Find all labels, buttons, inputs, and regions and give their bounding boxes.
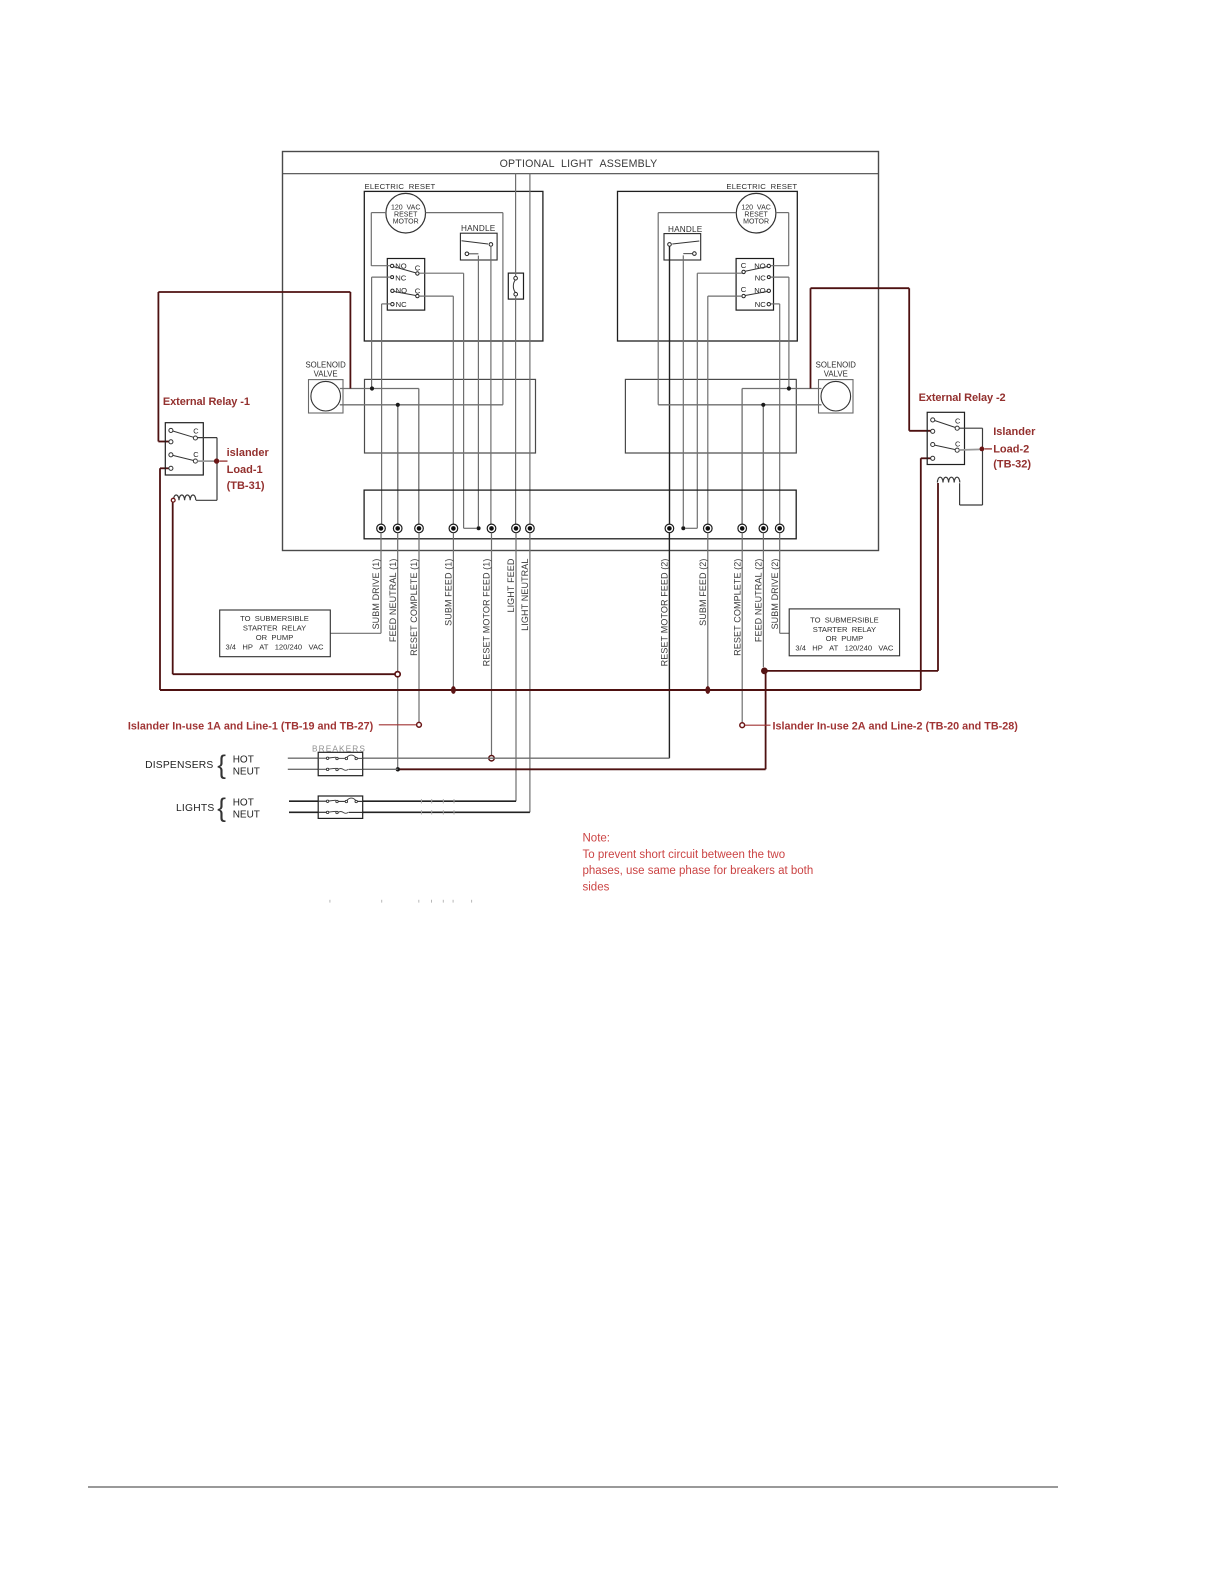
junction dispensers-neutral dot	[396, 767, 400, 771]
terminal strip box TB	[364, 490, 796, 539]
wire relay-1 C1 to load node	[196, 438, 217, 501]
wire handle S1 right pin down to RESET MOTOR FEED (1) terminal	[490, 246, 492, 524]
wire relay-1 feed vertical from valve node	[349, 292, 351, 389]
wire NC1 down to valve node (module 2)	[788, 277, 790, 388]
wire valve node to RESET COMPLETE (1) drop	[372, 388, 419, 390]
light feed switch S3	[508, 273, 523, 299]
wire feed-neutral-2 to relay-2 coil	[937, 483, 939, 671]
junction light-circuit node B at strip	[681, 526, 685, 530]
solenoid valve V1	[305, 360, 346, 413]
terminal RESET COMPLETE (2)	[738, 524, 747, 533]
wire motor M2 left lead horizontal	[658, 212, 736, 214]
svg-text:FEED NEUTRAL (2): FEED NEUTRAL (2)	[754, 559, 764, 643]
svg-text:C: C	[193, 427, 199, 436]
wire NC2 contact lead (module 2)	[771, 303, 780, 305]
svg-text:TO SUBMERSIBLE: TO SUBMERSIBLE	[240, 614, 309, 623]
wire neutral bus riser to feed-neutral-2	[765, 671, 767, 769]
wire valve V1 lower lead	[340, 404, 398, 406]
electric reset module 1 box	[364, 191, 543, 341]
wire NC1 down to valve node	[371, 277, 373, 388]
wire FEED NEUTRAL (1) below strip upper	[397, 533, 399, 672]
wire valve V2 lower lead continues to motor drop	[658, 404, 763, 406]
svg-text:{: {	[217, 750, 226, 780]
svg-text:NEUT: NEUT	[233, 810, 260, 821]
svg-text:MOTOR: MOTOR	[743, 219, 769, 226]
wire into NO1 contact	[371, 265, 390, 267]
terminal RESET MOTOR FEED (2)	[665, 524, 674, 533]
svg-text:C: C	[741, 261, 747, 270]
wire RESET MOTOR FEED (1) below strip	[491, 533, 493, 756]
wire C1 output horizontal (module 2)	[697, 272, 742, 274]
wire motor M2 left lead vertical down to valve feed	[657, 213, 659, 405]
wire relay-2 feed vertical from valve node	[810, 288, 812, 388]
wire SUBM DRIVE (2) below strip	[779, 533, 781, 634]
wire LIGHT FEED below strip to lights hot	[515, 533, 517, 801]
svg-text:phases, use same phase for bre: phases, use same phase for breakers at b…	[583, 865, 814, 877]
wire dispensers neutral	[288, 768, 398, 770]
junction light-circuit node A at strip	[477, 526, 481, 530]
svg-text:FEED NEUTRAL (1): FEED NEUTRAL (1)	[388, 559, 398, 643]
contact block K2 (NO/NC contacts, module 2)	[736, 259, 773, 311]
svg-text:Load-2: Load-2	[993, 444, 1029, 456]
wire relay-1 C2 stub to load node	[197, 460, 214, 462]
wire motor M1 right lead vertical down to valve feed	[502, 213, 504, 405]
wire RESET COMPLETE (1) below strip	[418, 533, 420, 723]
svg-text:Islander In-use 2A and Line-2: Islander In-use 2A and Line-2 (TB-20 and…	[773, 721, 1019, 733]
terminal SUBM DRIVE (1)	[377, 524, 386, 533]
lead to load-2 label	[985, 448, 993, 450]
svg-text:RESET: RESET	[744, 212, 768, 219]
wire into NO1 contact (module 2)	[771, 265, 789, 267]
svg-text:OPTIONAL LIGHT ASSEMBLY: OPTIONAL LIGHT ASSEMBLY	[500, 158, 658, 170]
svg-text:SUBM FEED (1): SUBM FEED (1)	[444, 559, 454, 626]
svg-text:SOLENOID: SOLENOID	[816, 360, 857, 369]
svg-text:Islander In-use 1A and Line-1: Islander In-use 1A and Line-1 (TB-19 and…	[128, 720, 374, 732]
svg-text:LIGHTS: LIGHTS	[176, 803, 214, 814]
wire feed-neutral-2 tie horizontal	[764, 670, 938, 672]
terminal RESET COMPLETE (1)	[415, 524, 424, 533]
svg-text:VALVE: VALVE	[314, 369, 338, 378]
svg-text:120 VAC: 120 VAC	[741, 204, 770, 211]
wire FEED NEUTRAL (1) below strip lower	[397, 677, 399, 769]
svg-text:NC: NC	[395, 273, 406, 282]
wire subm-feed bus right riser	[920, 458, 922, 690]
wire NC1 contact lead	[372, 276, 391, 278]
wire FEED NEUTRAL (1) vertical to terminal	[397, 405, 399, 525]
junction islander in-use 2A ring	[740, 723, 745, 728]
wire relay-2 C1 to load node	[959, 428, 982, 505]
terminal LIGHT FEED	[512, 524, 521, 533]
wire lights neutral	[289, 811, 530, 813]
inner chamber box (left)	[365, 379, 536, 453]
svg-text:RESET MOTOR FEED (1): RESET MOTOR FEED (1)	[482, 559, 492, 667]
junction valve V2 lower node	[761, 403, 765, 407]
svg-text:Load-1: Load-1	[227, 464, 263, 476]
inner chamber box (right)	[625, 379, 796, 453]
wire valve node to RESET COMPLETE (2) drop	[742, 388, 789, 390]
svg-text:HOT: HOT	[233, 755, 254, 766]
wire motor M1 left lead horizontal	[371, 212, 386, 214]
svg-text:RESET COMPLETE (1): RESET COMPLETE (1)	[409, 559, 419, 656]
contact block K1 (NO/NC contacts, module 1)	[387, 259, 424, 311]
svg-text:(TB-32): (TB-32)	[993, 459, 1031, 471]
svg-text:SUBM DRIVE (2): SUBM DRIVE (2)	[770, 559, 780, 630]
wire RESET MOTOR FEED (2) below strip to dispensers hot	[668, 533, 670, 758]
wire light feed from title band to switch S3	[515, 174, 517, 277]
wire dispensers neutral extension to module 2	[398, 768, 766, 770]
svg-text:120 VAC: 120 VAC	[391, 204, 420, 211]
svg-text:NC: NC	[755, 300, 766, 309]
svg-text:ELECTRIC RESET: ELECTRIC RESET	[365, 182, 436, 191]
svg-text:LIGHT NEUTRAL: LIGHT NEUTRAL	[520, 559, 530, 631]
wire C1 output vertical (module 2)	[696, 273, 698, 528]
wire RESET COMPLETE (1) vertical to terminal	[418, 389, 420, 525]
svg-text:HANDLE: HANDLE	[461, 224, 496, 233]
svg-text:C: C	[741, 285, 747, 294]
wire C2 output horizontal (module 2)	[708, 295, 742, 297]
svg-text:C: C	[955, 439, 961, 448]
wire NC1 contact lead (module 2)	[771, 276, 789, 278]
wire feed-neutral-1 tie horizontal	[173, 673, 395, 675]
wire NC2 down to SUBM DRIVE (2) terminal	[779, 304, 781, 524]
svg-text:STARTER RELAY: STARTER RELAY	[813, 625, 876, 634]
reset motor M1 (120 VAC RESET MOTOR)	[386, 193, 426, 233]
lead to load-1 label	[220, 460, 228, 462]
svg-text:islander: islander	[227, 447, 270, 459]
svg-text:External Relay -1: External Relay -1	[163, 396, 250, 408]
wire motor M2 right lead horizontal	[776, 212, 789, 214]
lead islander in-use 1A	[379, 724, 416, 726]
wire LIGHT NEUTRAL below strip to lights neutral	[529, 533, 531, 813]
wire dispensers hot	[288, 757, 670, 759]
svg-text:TO SUBMERSIBLE: TO SUBMERSIBLE	[810, 615, 879, 624]
wire subm-feed bus horizontal	[160, 689, 921, 691]
wire valve V1 upper lead	[340, 388, 372, 390]
svg-text:OR PUMP: OR PUMP	[826, 634, 864, 643]
svg-text:External Relay -2: External Relay -2	[919, 392, 1006, 404]
wire relay-2 contact to subm-feed bus	[921, 457, 931, 459]
terminal SUBM FEED (1)	[449, 524, 458, 533]
svg-text:SUBM FEED (2): SUBM FEED (2)	[698, 559, 708, 626]
node islander load-1	[214, 458, 219, 463]
junction feed-neutral-2 dot	[761, 668, 768, 675]
breaker CB1 (dispensers)	[318, 752, 363, 775]
svg-text:3/4 HP AT 120/240 VAC: 3/4 HP AT 120/240 VAC	[225, 642, 324, 651]
terminal FEED NEUTRAL (2)	[759, 524, 768, 533]
svg-text:To prevent short circuit betwe: To prevent short circuit between the two	[583, 849, 786, 861]
svg-text:NC: NC	[396, 300, 407, 309]
breaker CB2 (lights)	[318, 796, 363, 818]
handle switch S1	[460, 224, 497, 260]
relay coil L1	[173, 495, 195, 500]
svg-text:HANDLE: HANDLE	[668, 225, 703, 234]
wire handle S2 left pin down to RESET MOTOR FEED (2) terminal	[669, 246, 671, 524]
submersible starter relay box 1	[220, 610, 331, 657]
wire FEED NEUTRAL (2) below strip	[762, 533, 764, 668]
junction valve V1 upper node	[370, 386, 374, 390]
terminal SUBM FEED (2)	[704, 524, 713, 533]
submersible starter relay box 2	[789, 609, 899, 656]
wire valve V2 upper lead	[789, 388, 822, 390]
junction valve V2 upper node	[787, 386, 791, 390]
wire relay-2 feed into contact	[909, 430, 931, 432]
wire relay-1 feed into contact	[158, 441, 169, 443]
electric reset module 2 box	[618, 191, 798, 341]
terminal LIGHT NEUTRAL	[526, 524, 535, 533]
wire relay-1 feed vertical left	[157, 292, 159, 442]
wire motor M1 right lead horizontal	[426, 212, 503, 214]
wire handle S1 left pin down to junction	[477, 256, 479, 527]
svg-text:SOLENOID: SOLENOID	[305, 360, 346, 369]
reset motor M2 (120 VAC RESET MOTOR)	[736, 193, 776, 233]
external relay CR1	[165, 423, 203, 475]
wire motor M2 to NO1 vertical	[788, 213, 790, 266]
wire relay-1 feed horizontal top	[158, 291, 350, 293]
junction subm-feed-2	[705, 686, 710, 694]
wire C1 output vertical	[463, 273, 465, 528]
svg-text:VALVE: VALVE	[824, 369, 848, 378]
wire C2 output to SUBM FEED (1) terminal	[452, 296, 454, 524]
wire relay-2 feed vertical right	[908, 288, 910, 431]
wire relay-1 coil to feed-neutral-1	[172, 502, 174, 674]
wire SUBM FEED (1) below strip	[452, 533, 454, 687]
svg-text:(TB-31): (TB-31)	[227, 480, 265, 492]
svg-text:OR PUMP: OR PUMP	[256, 633, 294, 642]
wire RESET COMPLETE (2) below strip	[741, 533, 743, 723]
title band separator line	[283, 173, 879, 175]
svg-text:C: C	[955, 417, 961, 426]
wire subm-feed bus left riser	[159, 468, 161, 690]
wire relay-2 feed horizontal top	[811, 287, 910, 289]
svg-text:SUBM DRIVE (1): SUBM DRIVE (1)	[371, 559, 381, 630]
solenoid valve V2	[816, 360, 857, 413]
wire light neutral from title band to LIGHT NEUTRAL terminal	[529, 174, 531, 525]
svg-text:STARTER RELAY: STARTER RELAY	[243, 624, 306, 633]
svg-text:RESET: RESET	[394, 212, 418, 219]
svg-text:RESET COMPLETE (2): RESET COMPLETE (2)	[732, 559, 742, 656]
node islander load-2	[980, 447, 985, 452]
wire light feed from switch S3 to LIGHT FEED terminal	[515, 296, 517, 524]
external relay CR2	[927, 412, 964, 464]
note text	[583, 833, 814, 894]
wire handle S2 right pin down to junction	[682, 255, 684, 526]
terminal FEED NEUTRAL (1)	[393, 524, 402, 533]
wire RESET COMPLETE (2) vertical to terminal	[741, 389, 743, 525]
junction subm-feed-1	[451, 686, 456, 694]
wire C1 output horizontal	[419, 272, 464, 274]
optional light assembly enclosure box	[283, 152, 879, 551]
wire NC2 contact lead	[382, 303, 391, 305]
svg-text:{: {	[217, 793, 226, 823]
svg-text:RESET MOTOR FEED (2): RESET MOTOR FEED (2)	[660, 559, 670, 667]
junction reset-motor-feed-1 ring	[489, 756, 494, 761]
wire FEED NEUTRAL (2) vertical to terminal	[762, 405, 764, 525]
wire SUBM DRIVE (1) below strip	[380, 533, 382, 634]
svg-text:Islander: Islander	[993, 426, 1036, 438]
wire C2 output horizontal	[419, 295, 453, 297]
svg-text:HOT: HOT	[233, 798, 254, 809]
terminal SUBM DRIVE (2)	[775, 524, 784, 533]
wire NC2 down to SUBM DRIVE (1) terminal	[381, 304, 383, 524]
svg-text:NC: NC	[755, 273, 766, 282]
wire valve V2 lower lead	[763, 404, 821, 406]
svg-text:C: C	[193, 450, 199, 459]
svg-text:LIGHT FEED: LIGHT FEED	[506, 558, 516, 612]
svg-text:MOTOR: MOTOR	[393, 219, 419, 226]
footer rule	[88, 1486, 1058, 1488]
relay coil L2	[937, 477, 959, 482]
svg-text:sides: sides	[583, 881, 610, 893]
svg-text:DISPENSERS: DISPENSERS	[145, 760, 213, 771]
wire SUBM DRIVE (1) into submersible box 1	[330, 632, 381, 634]
wire C2 output to SUBM FEED (2) terminal	[707, 296, 709, 524]
svg-text:3/4 HP AT 120/240 VAC: 3/4 HP AT 120/240 VAC	[795, 644, 894, 653]
coil L1 left terminal ring	[171, 498, 175, 502]
svg-text:Note:: Note:	[583, 833, 611, 845]
junction valve V1 lower node	[396, 403, 400, 407]
wire SUBM FEED (2) below strip	[707, 533, 709, 687]
wire valve V1 lower lead continues to motor drop	[398, 404, 503, 406]
faint tick artifacts row	[330, 900, 472, 903]
svg-text:ELECTRIC RESET: ELECTRIC RESET	[726, 182, 797, 191]
junction feed-neutral-1 ring	[395, 672, 400, 677]
junction islander in-use 1A ring	[417, 722, 422, 727]
lead islander in-use 2A	[745, 724, 771, 726]
wire SUBM DRIVE (2) into submersible box 2	[780, 632, 790, 634]
wire C1 output to junction at strip (module 2)	[685, 527, 697, 529]
terminal RESET MOTOR FEED (1)	[487, 524, 496, 533]
faint crossing ticks on lights lines	[421, 799, 454, 815]
handle switch S2	[664, 225, 703, 260]
wire C1 output to junction at strip	[464, 527, 477, 529]
wire relay-1 contact to subm-feed bus	[160, 467, 169, 469]
wire lights hot	[289, 800, 516, 802]
svg-text:NEUT: NEUT	[233, 767, 260, 778]
wire relay-2 C2 stub to load node	[959, 448, 980, 451]
wire motor M1 to NO1 vertical	[370, 213, 372, 266]
